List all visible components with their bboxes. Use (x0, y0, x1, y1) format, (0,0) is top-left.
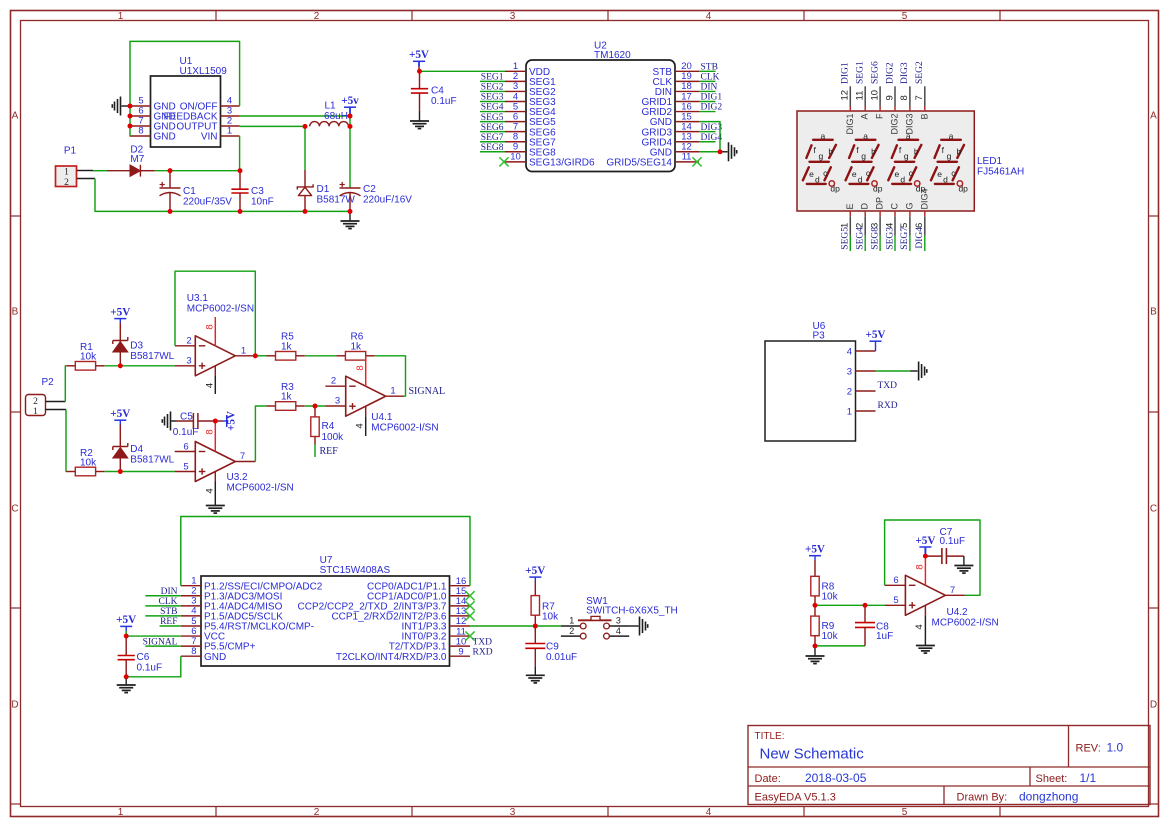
svg-text:EasyEDA V5.1.3: EasyEDA V5.1.3 (755, 792, 836, 804)
svg-text:New Schematic: New Schematic (760, 746, 865, 763)
svg-text:0.1uF: 0.1uF (173, 427, 199, 438)
svg-text:11: 11 (855, 91, 866, 101)
svg-text:TXD: TXD (473, 637, 493, 647)
wire P1 pin1 to D2 (77, 170, 107, 172)
U4.2 pin5 number (893, 595, 898, 606)
svg-text:P3: P3 (813, 331, 826, 342)
capacitor C7 0.1uF (925, 527, 965, 564)
svg-text:U3.1: U3.1 (187, 293, 209, 304)
capacitor C1 220uF/35V (160, 171, 233, 212)
svg-text:c: c (823, 168, 828, 178)
node U3.2 pin8 +5V (213, 419, 218, 424)
svg-text:2: 2 (331, 376, 336, 387)
svg-text:P1: P1 (64, 146, 77, 157)
resistor R1 10k (66, 342, 104, 370)
svg-text:+5V: +5V (805, 544, 825, 556)
U4.2 pin8 stub (915, 556, 926, 585)
svg-text:2: 2 (33, 397, 38, 407)
wire +5V to U2 VDD (420, 70, 506, 72)
U1 pins right (164, 96, 240, 143)
svg-text:a: a (863, 131, 868, 141)
svg-text:+5v: +5v (341, 95, 359, 107)
svg-text:VIN: VIN (201, 132, 218, 143)
ground at SW1 (630, 617, 648, 636)
op-amp U3.2 MCP6002-I/SN (195, 442, 293, 494)
wire R6 to SIGNAL corner (375, 356, 406, 396)
wire P2 pin1 to R2 (46, 410, 67, 472)
diode D1 B5817W (297, 126, 355, 211)
wires U2 right nets (699, 71, 716, 141)
svg-text:A: A (12, 111, 19, 122)
svg-text:DIG3: DIG3 (701, 123, 723, 133)
svg-text:g: g (947, 151, 952, 161)
svg-text:2: 2 (64, 178, 69, 188)
svg-text:8: 8 (205, 429, 216, 434)
svg-text:dp: dp (830, 184, 840, 194)
chip U2 TM1620 (526, 41, 675, 172)
svg-text:DIG4: DIG4 (701, 133, 723, 143)
svg-text:DIG2: DIG2 (890, 114, 900, 135)
svg-text:C: C (1150, 504, 1157, 515)
resistor R6 1k (336, 331, 374, 360)
connector P2 (26, 377, 55, 417)
wire D2 to C1 to C3 (155, 170, 240, 172)
svg-text:2: 2 (569, 626, 574, 636)
svg-text:10k: 10k (822, 631, 839, 642)
svg-text:3: 3 (616, 615, 621, 625)
svg-text:1uF: 1uF (876, 631, 893, 642)
svg-text:4: 4 (914, 624, 925, 629)
U4.1 pin4 stub (355, 406, 366, 436)
svg-text:A: A (1150, 111, 1157, 122)
U1 pins left (130, 96, 176, 143)
svg-text:a: a (821, 131, 826, 141)
svg-text:9: 9 (884, 95, 895, 100)
power flag +5V at D4 (110, 408, 130, 447)
wire U1 pin8 loop to pin4 (130, 41, 240, 136)
power flag +5V at R8 (805, 544, 825, 577)
capacitor C9 0.01uF (525, 626, 577, 667)
node U4.2 pin8 (923, 554, 928, 559)
resistor R5 1k (255, 331, 304, 360)
ground at U6 (919, 362, 927, 381)
svg-text:c: c (866, 168, 871, 178)
svg-text:F: F (875, 113, 885, 119)
svg-text:11: 11 (682, 152, 692, 163)
title block (748, 726, 1150, 805)
wire U7 pin1 loop to pin16 (181, 517, 470, 586)
net labels DIN CLK STB REF SIGNAL (143, 587, 178, 647)
U3.1 pin4 stub (205, 366, 216, 394)
svg-text:4: 4 (205, 383, 216, 388)
resistor R8 10k (811, 576, 839, 605)
svg-text:+5V: +5V (226, 411, 238, 431)
svg-text:SWITCH-6X6X5_TH: SWITCH-6X6X5_TH (586, 606, 678, 617)
svg-text:2018-03-05: 2018-03-05 (805, 771, 867, 785)
ground at C4 (410, 111, 429, 129)
svg-text:g: g (904, 151, 909, 161)
svg-text:C5: C5 (180, 412, 193, 423)
U4.1 pin1 output (386, 386, 404, 397)
U2 pins left (505, 61, 595, 168)
svg-text:G: G (904, 202, 914, 209)
svg-text:U4.1: U4.1 (371, 412, 393, 423)
svg-text:3: 3 (186, 355, 191, 366)
svg-text:d: d (943, 174, 948, 184)
svg-text:D: D (11, 700, 18, 711)
power flag +5V at U4.2 (915, 535, 935, 556)
svg-text:+5V: +5V (110, 306, 130, 318)
inductor L1 68uH (310, 101, 349, 127)
svg-text:d: d (858, 174, 863, 184)
svg-text:A: A (860, 114, 870, 120)
svg-text:220uF/35V: 220uF/35V (183, 196, 232, 207)
svg-text:10k: 10k (822, 592, 839, 603)
capacitor C5 0.1uF (171, 412, 215, 438)
net label SIGNAL (409, 386, 446, 397)
ground at R9 (806, 646, 825, 664)
svg-text:STC15W408AS: STC15W408AS (320, 565, 391, 576)
bottom ground rail (170, 210, 350, 212)
svg-text:c: c (951, 168, 956, 178)
svg-text:5: 5 (902, 807, 908, 818)
connector P1 (56, 146, 77, 188)
svg-text:DIG1: DIG1 (845, 114, 855, 135)
power flag +5V at C5 (215, 411, 237, 431)
svg-text:0.1uF: 0.1uF (940, 536, 966, 547)
no-connect U2 pin10 (499, 157, 508, 166)
wire R4 to REF (314, 445, 316, 458)
power flag +5V at R7 (525, 565, 545, 596)
svg-text:7: 7 (914, 95, 925, 100)
wire U1 GND pins junctions (128, 104, 133, 129)
svg-text:220uF/16V: 220uF/16V (363, 194, 412, 205)
svg-text:4: 4 (706, 11, 712, 22)
svg-text:+5V: +5V (110, 408, 130, 420)
op-amp U3.1 MCP6002-I/SN (187, 293, 254, 376)
svg-text:C: C (890, 203, 900, 210)
resistor R7 10k (531, 596, 559, 626)
svg-text:0.1uF: 0.1uF (137, 663, 163, 674)
diode D2 M7 (107, 145, 155, 177)
power flag +5v at L1 (341, 95, 359, 116)
svg-text:M7: M7 (130, 154, 144, 165)
LED1 bottom net labels (841, 227, 926, 250)
wire R1 to U3.1 pin3 (105, 365, 175, 367)
svg-text:CLK: CLK (701, 73, 720, 83)
svg-text:B: B (1150, 307, 1157, 318)
svg-text:C9: C9 (546, 641, 559, 652)
op-amp U4.2 MCP6002-I/SN (905, 575, 998, 628)
ground at C6 (117, 677, 136, 693)
svg-text:FJ5461AH: FJ5461AH (977, 166, 1024, 177)
op-amp U4.1 MCP6002-I/SN (346, 376, 439, 433)
svg-text:8: 8 (355, 365, 366, 370)
svg-text:B: B (919, 114, 929, 120)
svg-text:Drawn By:: Drawn By: (957, 792, 1008, 804)
wire P1 pin2 to bottom rail (77, 179, 170, 212)
svg-text:0.1uF: 0.1uF (431, 96, 457, 107)
svg-text:LED1: LED1 (977, 156, 1002, 167)
svg-text:1: 1 (227, 126, 232, 137)
wire R5 to R6 (305, 355, 337, 357)
svg-text:+5V: +5V (865, 329, 885, 341)
U6 pins (847, 346, 876, 417)
svg-text:8: 8 (191, 646, 196, 657)
svg-text:D: D (860, 203, 870, 210)
net label REF (320, 446, 339, 457)
svg-text:MCP6002-I/SN: MCP6002-I/SN (187, 304, 254, 315)
svg-text:REV:: REV: (1076, 743, 1101, 755)
wire U3.1 feedback loop (175, 271, 255, 356)
svg-text:g: g (819, 151, 824, 161)
svg-text:RXD: RXD (878, 401, 898, 411)
ground at C5 (162, 412, 170, 431)
svg-text:5: 5 (902, 11, 908, 22)
svg-text:DIG2: DIG2 (885, 62, 895, 84)
svg-text:e: e (809, 169, 814, 179)
resistor R4 100k (311, 406, 344, 445)
node C3 bottom (238, 209, 243, 214)
svg-text:b: b (828, 146, 833, 156)
svg-text:b: b (871, 146, 876, 156)
svg-text:12: 12 (840, 90, 851, 101)
wire R3 to U4.1 pin3 (305, 405, 346, 407)
svg-text:+5V: +5V (409, 49, 429, 61)
svg-text:U1XL1509: U1XL1509 (180, 66, 228, 77)
svg-text:CLK: CLK (159, 597, 178, 607)
svg-text:3: 3 (847, 366, 852, 377)
svg-text:68uH: 68uH (324, 111, 348, 122)
node U2 GND (718, 149, 723, 154)
svg-text:SEG2: SEG2 (481, 83, 504, 93)
U7 pins right (298, 576, 470, 663)
svg-text:SEG3: SEG3 (481, 93, 504, 103)
svg-text:Sheet:: Sheet: (1036, 773, 1068, 785)
svg-text:SIGNAL: SIGNAL (409, 386, 446, 397)
svg-text:C: C (11, 504, 18, 515)
svg-text:T2CLKO/INT4/RXD/P3.0: T2CLKO/INT4/RXD/P3.0 (336, 652, 447, 663)
net labels TXD RXD at U6 (878, 381, 898, 411)
svg-text:1: 1 (569, 615, 574, 625)
svg-text:10k: 10k (80, 458, 97, 469)
svg-text:10: 10 (510, 152, 521, 163)
wire FEEDBACK to +5v node (240, 115, 350, 117)
svg-text:0.01uF: 0.01uF (546, 652, 577, 663)
svg-text:U3.2: U3.2 (227, 472, 249, 483)
svg-text:5: 5 (893, 595, 898, 606)
svg-text:SEG3: SEG3 (885, 227, 895, 250)
svg-text:3: 3 (510, 807, 516, 818)
svg-text:DIG2: DIG2 (701, 103, 723, 113)
wire U3.2 out to R3 (255, 406, 266, 462)
wire U7 GND to C6 (126, 656, 181, 677)
U4.1 pin8 stub (355, 356, 366, 386)
svg-text:1: 1 (118, 11, 124, 22)
svg-text:DIG4: DIG4 (915, 227, 925, 249)
U3.1 pin1 output (235, 345, 255, 356)
power flag +5V at D3 (110, 306, 130, 340)
node C2 bottom (348, 209, 353, 214)
svg-text:E: E (845, 203, 855, 209)
U4.1 pin2 stub (325, 376, 345, 387)
ground at U3.2 (206, 506, 225, 514)
svg-text:GND: GND (204, 652, 226, 663)
svg-text:SEG13/GIRD6: SEG13/GIRD6 (529, 157, 595, 168)
svg-text:DIG1: DIG1 (701, 93, 723, 103)
svg-text:TXD: TXD (878, 381, 898, 391)
wire R2 to U3.2 pin5 (105, 471, 175, 473)
svg-text:SEG2: SEG2 (915, 61, 925, 84)
node U3.1 output (253, 353, 258, 358)
svg-text:GRID5/SEG14: GRID5/SEG14 (606, 157, 672, 168)
svg-text:2: 2 (314, 807, 320, 818)
svg-text:REF: REF (160, 617, 177, 627)
U3.2 pin7 output (235, 451, 255, 462)
svg-text:REF: REF (320, 446, 339, 457)
ground at U4.2 (916, 646, 935, 654)
ground at C9 (526, 667, 545, 683)
svg-text:D: D (1150, 700, 1157, 711)
svg-text:c: c (909, 168, 914, 178)
svg-text:+5V: +5V (116, 614, 136, 626)
svg-text:1: 1 (241, 345, 246, 356)
svg-text:10k: 10k (80, 351, 97, 362)
svg-text:4: 4 (205, 488, 216, 493)
power flag +5V at C6 (116, 614, 136, 636)
svg-text:e: e (852, 169, 857, 179)
U3.1 pin2 stub (175, 335, 195, 346)
svg-text:g: g (861, 151, 866, 161)
svg-text:4: 4 (847, 346, 852, 357)
svg-text:dp: dp (958, 184, 968, 194)
svg-text:B: B (12, 307, 19, 318)
node R7 C9 SW1 (533, 624, 538, 629)
svg-text:e: e (895, 169, 900, 179)
svg-text:R4: R4 (322, 421, 335, 432)
LED1 top pins (840, 86, 926, 111)
resistor R2 10k (66, 448, 104, 476)
svg-text:1k: 1k (281, 391, 293, 402)
U4.1 pin3 number (335, 395, 340, 406)
ground at C7 (954, 556, 973, 573)
node D3 anode (118, 363, 123, 368)
svg-text:2: 2 (186, 335, 191, 346)
svg-text:e: e (937, 169, 942, 179)
wire P2 pin2 to R1 (46, 366, 67, 402)
U4.2 pin6 stub (885, 575, 906, 586)
svg-text:SEG5: SEG5 (841, 227, 851, 250)
node D1 bottom (303, 209, 308, 214)
U3.2 pin4 stub (205, 472, 216, 506)
node C6 ground (124, 674, 129, 679)
node D2-C1 (168, 168, 173, 173)
node L1 left (303, 124, 308, 129)
ground at C2 (341, 211, 360, 228)
svg-text:a: a (906, 131, 911, 141)
U3.2 pin5 stub (175, 461, 196, 472)
svg-text:1: 1 (390, 386, 395, 397)
svg-text:MCP6002-I/SN: MCP6002-I/SN (932, 618, 999, 629)
U3.2 pin8 stub (205, 421, 216, 452)
chip U7 STC15W408AS (201, 555, 450, 666)
node L1 right (348, 124, 353, 129)
LED1 seven segment digits (803, 131, 968, 193)
svg-text:1k: 1k (351, 341, 363, 352)
svg-text:DIN: DIN (701, 83, 718, 93)
node C1 bottom (168, 209, 173, 214)
wire U6 pin3 to ground (876, 370, 918, 372)
SEG wires at U2 left (480, 81, 505, 151)
wires DIN CLK STB at U7 (145, 596, 180, 646)
display LED1 FJ5461AH body (797, 111, 1024, 211)
svg-text:SEG4: SEG4 (856, 227, 866, 250)
wire VIN down to rail (239, 136, 241, 171)
svg-text:8: 8 (138, 126, 143, 137)
svg-text:MCP6002-I/SN: MCP6002-I/SN (371, 423, 438, 434)
U3.1 pin3 stub (175, 355, 196, 366)
node R8 R9 (813, 603, 818, 608)
wire U2 GND pin15 to pin12 (699, 122, 720, 152)
switch SW1 SWITCH-6X6X5_TH (561, 596, 678, 639)
svg-text:4: 4 (706, 807, 712, 818)
node C3-VIN (238, 168, 243, 173)
svg-text:STB: STB (160, 607, 177, 617)
svg-text:SIGNAL: SIGNAL (143, 637, 178, 647)
wire U4.2 feedback loop (885, 520, 980, 595)
svg-text:100k: 100k (322, 432, 345, 443)
wire OUTPUT to L1 (240, 125, 305, 127)
svg-text:5: 5 (183, 461, 188, 472)
net labels U2 right (701, 63, 723, 143)
wire R9 to C8 bottom (815, 645, 865, 647)
U4.2 pin4 stub (914, 606, 925, 646)
svg-text:TM1620: TM1620 (594, 50, 631, 61)
svg-text:6: 6 (183, 441, 188, 452)
svg-text:SEG6: SEG6 (870, 61, 880, 84)
node VCC C6 (124, 634, 129, 639)
capacitor C4 0.1uF (411, 71, 457, 111)
power flag +5V at U6 (865, 329, 885, 351)
svg-text:DIG3: DIG3 (900, 62, 910, 84)
capacitor C8 1uF (855, 605, 893, 646)
svg-text:7: 7 (950, 585, 955, 596)
svg-text:L1: L1 (324, 101, 336, 112)
svg-text:SEG6: SEG6 (481, 123, 504, 133)
svg-text:2: 2 (847, 386, 852, 397)
svg-text:D4: D4 (130, 444, 143, 455)
svg-text:d: d (900, 174, 905, 184)
junction dots overlay (118, 69, 928, 679)
svg-text:DIN: DIN (161, 587, 178, 597)
svg-text:1k: 1k (281, 341, 293, 352)
diode D4 B5817WL (113, 443, 175, 472)
svg-text:1: 1 (64, 168, 69, 178)
svg-text:8: 8 (915, 564, 926, 569)
svg-text:+5V: +5V (915, 535, 935, 547)
capacitor C2 220uF/16V (340, 182, 413, 212)
U3.1 pin8 stub (205, 317, 216, 346)
svg-text:7: 7 (240, 451, 245, 462)
svg-text:4: 4 (616, 626, 621, 636)
svg-text:SEG7: SEG7 (481, 133, 504, 143)
svg-text:dp: dp (873, 184, 883, 194)
svg-text:1/1: 1/1 (1080, 771, 1097, 785)
svg-text:B5817WL: B5817WL (130, 455, 174, 466)
U7 pins left (181, 576, 323, 663)
LED1 bottom pins (840, 211, 926, 251)
svg-text:1: 1 (118, 807, 124, 818)
